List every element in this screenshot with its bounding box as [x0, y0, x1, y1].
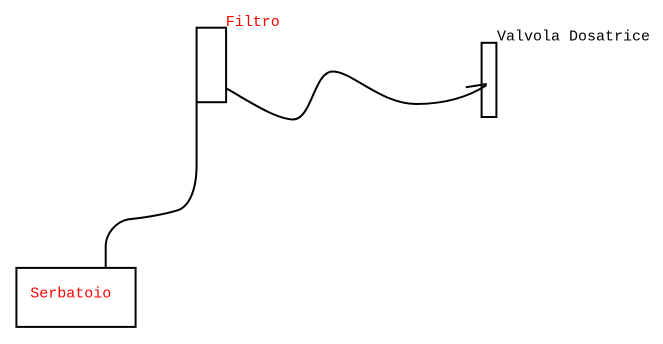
metering valve box (Valvola Dosatrice): [482, 43, 497, 117]
filter box (Filtro): [197, 28, 227, 103]
svg-text:Valvola Dosatrice: Valvola Dosatrice: [497, 29, 650, 46]
tank box (Serbatoio): [16, 268, 135, 327]
wire Serbatoio to Filtro: [106, 102, 197, 268]
arrowhead at Valvola Dosatrice: [466, 84, 487, 87]
wire Filtro to Valvola Dosatrice: [226, 71, 486, 119]
svg-text:Serbatoio: Serbatoio: [30, 285, 111, 302]
svg-text:Filtro: Filtro: [226, 14, 280, 31]
